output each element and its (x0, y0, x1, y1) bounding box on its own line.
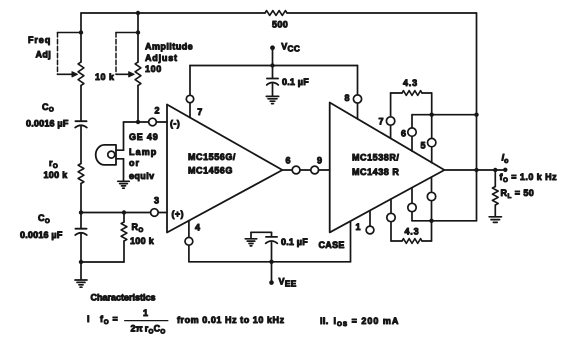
svg-text:0.0016 µF: 0.0016 µF (20, 230, 63, 240)
svg-text:100: 100 (145, 64, 162, 74)
svg-text:MC1538R/: MC1538R/ (352, 153, 399, 163)
svg-text:7: 7 (379, 117, 384, 127)
svg-text:MC1556G/: MC1556G/ (188, 152, 236, 162)
svg-text:MC1456G: MC1456G (188, 166, 233, 176)
svg-text:4.3: 4.3 (405, 227, 420, 237)
svg-text:8: 8 (345, 93, 350, 103)
svg-text:equiv: equiv (129, 171, 155, 181)
svg-text:or: or (129, 158, 140, 168)
svg-text:I: I (87, 314, 90, 324)
svg-text:0.0016 µF: 0.0016 µF (26, 119, 69, 129)
svg-text:(-): (-) (170, 119, 180, 129)
svg-text:Amplitude: Amplitude (145, 41, 193, 51)
svg-text:Characteristics: Characteristics (91, 292, 156, 302)
svg-text:0.1 µF: 0.1 µF (282, 77, 309, 87)
svg-text:CASE: CASE (319, 240, 345, 250)
svg-text:500: 500 (272, 20, 288, 30)
svg-text:from 0.01 Hz to 10 kHz: from 0.01 Hz to 10 kHz (177, 315, 285, 325)
svg-text:9: 9 (317, 156, 322, 166)
svg-text:4.3: 4.3 (403, 78, 418, 88)
svg-text:10 k: 10 k (95, 72, 115, 82)
svg-text:Lamp: Lamp (129, 147, 157, 157)
svg-text:6: 6 (401, 128, 406, 138)
svg-text:GE 49: GE 49 (129, 132, 159, 142)
svg-text:Freq: Freq (28, 35, 51, 45)
svg-text:0.1 µF: 0.1 µF (281, 237, 308, 247)
svg-text:6: 6 (286, 156, 291, 166)
svg-text:II.: II. (320, 316, 329, 326)
svg-text:4: 4 (195, 223, 200, 233)
svg-text:(+): (+) (172, 209, 184, 219)
svg-text:3: 3 (154, 196, 159, 206)
svg-text:5: 5 (421, 140, 426, 150)
svg-text:100 k: 100 k (130, 236, 155, 246)
svg-text:1: 1 (143, 308, 148, 318)
svg-text:MC1438 R: MC1438 R (352, 167, 399, 177)
svg-text:Adj: Adj (36, 50, 52, 60)
svg-text:2: 2 (155, 106, 160, 116)
svg-text:Adjust: Adjust (145, 53, 178, 63)
svg-text:100 k: 100 k (44, 170, 69, 180)
svg-text:1: 1 (356, 222, 361, 232)
svg-text:7: 7 (197, 107, 202, 117)
